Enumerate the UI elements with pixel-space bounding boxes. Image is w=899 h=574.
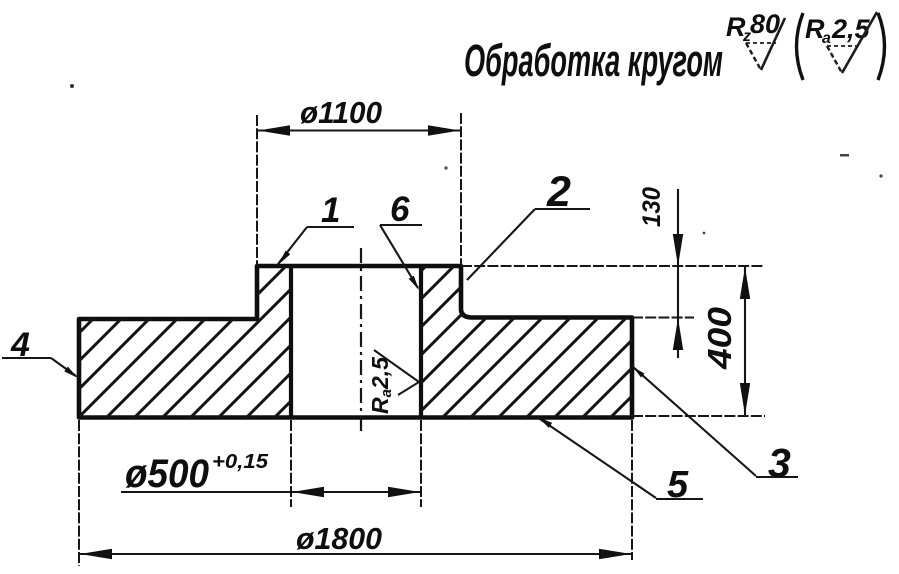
scan specks	[70, 84, 74, 88]
dimension 400 (total height, right)	[632, 266, 765, 416]
svg-text:Обработка кругом: Обработка кругом	[464, 35, 723, 86]
dimension ф1800 (overall diameter, bottom)	[79, 420, 632, 566]
part outline: flanged hub cross-section	[79, 266, 632, 418]
dimension ф1100 (boss diameter, top)	[257, 95, 461, 266]
svg-text:130: 130	[638, 187, 666, 227]
svg-text:4: 4	[10, 326, 30, 364]
dimension 130 (boss height, right)	[461, 187, 763, 358]
svg-text:a: a	[822, 30, 831, 47]
leader 5 (bottom surface)	[537, 417, 703, 506]
svg-text:5: 5	[667, 464, 689, 506]
svg-text:+0,15: +0,15	[212, 451, 269, 473]
leader 6 (hole wall upper)	[380, 190, 422, 290]
svg-text:80: 80	[750, 9, 780, 39]
leader 2 (flange top surface right)	[467, 168, 590, 280]
centerline of hole	[360, 248, 362, 432]
svg-text:1: 1	[321, 191, 340, 230]
leader 3 (outer rim surface right)	[632, 366, 798, 486]
roughness symbol (Ra2,5) in parentheses	[797, 12, 885, 80]
svg-text:ø500: ø500	[125, 452, 209, 496]
svg-text:ø1100: ø1100	[300, 95, 382, 130]
svg-text:ø1800: ø1800	[296, 521, 382, 556]
svg-text:Ra2,5: Ra2,5	[367, 356, 395, 414]
roughness Ra2,5 inside hole wall	[367, 350, 419, 414]
leader 1 (boss top surface)	[278, 191, 354, 265]
dimension ф500 +0,15 (hole diameter)	[121, 420, 421, 507]
svg-text:6: 6	[390, 190, 410, 229]
svg-text:2: 2	[546, 168, 571, 216]
leader 4 (outer rim surface left)	[2, 326, 78, 378]
svg-text:2,5: 2,5	[831, 14, 871, 44]
svg-text:3: 3	[768, 440, 791, 486]
roughness symbol Rz80	[726, 9, 785, 70]
svg-text:400: 400	[701, 306, 738, 370]
